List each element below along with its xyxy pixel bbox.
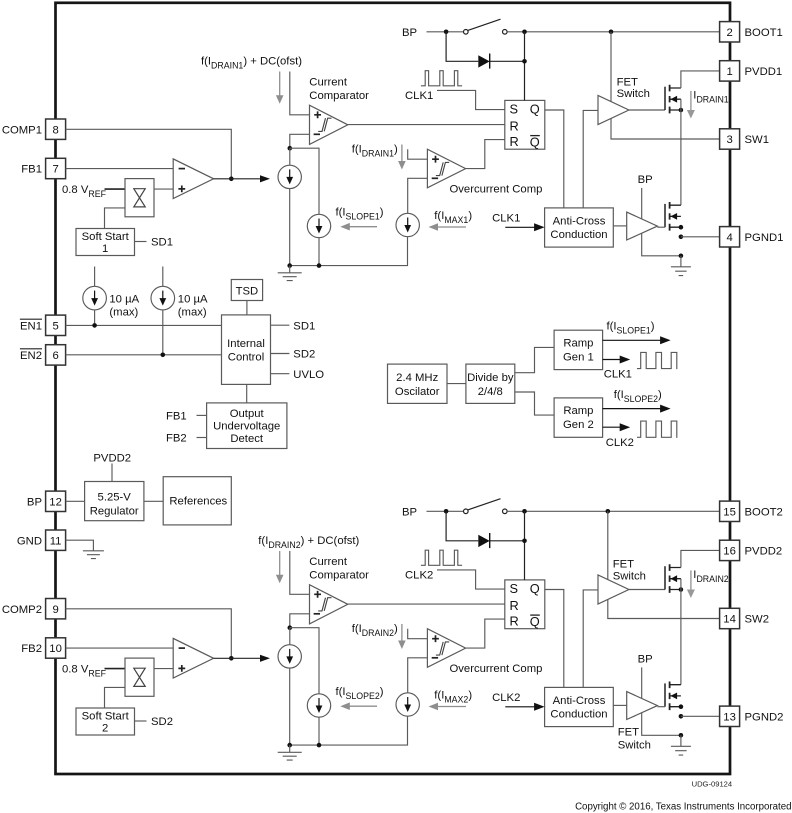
svg-text:2: 2: [726, 27, 732, 39]
wire SD1 stub: [135, 241, 147, 243]
wire PVDD1 to drain: [681, 71, 720, 88]
wire signal to comparator +: [290, 72, 310, 115]
Output Undervoltage Detect box: [207, 403, 287, 449]
svg-text:SW2: SW2: [745, 614, 769, 626]
svg-text:1: 1: [102, 243, 108, 255]
wire COMP2 to node: [66, 609, 232, 659]
wire comparator - input: [290, 614, 310, 628]
wire TSD to control: [246, 301, 248, 315]
svg-text:Control: Control: [228, 352, 264, 364]
node boot diode: [522, 509, 527, 514]
wire anticross to low driver: [613, 704, 626, 706]
svg-text:Copyright © 2016, Texas Instru: Copyright © 2016, Texas Instruments Inco…: [575, 802, 791, 813]
svg-text:BOOT2: BOOT2: [745, 506, 783, 518]
svg-text:S: S: [510, 101, 519, 116]
svg-text:Current: Current: [309, 76, 348, 88]
wire low driver to gate: [657, 226, 665, 228]
arrow slope2 out: [603, 408, 661, 410]
pin 7 FB1: [46, 158, 66, 178]
node EN1 source: [92, 323, 97, 328]
svg-text:Comparator: Comparator: [309, 90, 369, 102]
wire BP to switch: [427, 31, 464, 33]
pin 6 EN2: [46, 345, 66, 365]
wire diode branch: [446, 511, 524, 580]
wire comparator out to latch R1: [348, 124, 505, 126]
node low source: [679, 225, 684, 230]
pin 15 BOOT2: [720, 501, 740, 521]
grey arrow oc drain: [401, 624, 403, 641]
grey arrow oc drain: [401, 145, 403, 162]
svg-text:3: 3: [726, 134, 732, 146]
node low source: [679, 704, 684, 709]
svg-text:Gen 1: Gen 1: [563, 352, 594, 364]
SR latch 1: [505, 100, 545, 149]
wire oc - input: [408, 178, 428, 213]
node EA1 output: [229, 177, 234, 182]
wire to PGND1: [681, 236, 720, 238]
svg-text:UVLO: UVLO: [293, 369, 324, 381]
svg-text:CLK2: CLK2: [405, 570, 433, 582]
wire source2 to EN2: [162, 310, 164, 355]
wire BP to low driver: [641, 667, 643, 698]
svg-text:Anti-Cross: Anti-Cross: [553, 216, 606, 228]
wire low driver return: [642, 713, 681, 735]
svg-text:S: S: [510, 581, 519, 596]
svg-text:Switch: Switch: [617, 88, 650, 100]
References box: [163, 477, 231, 525]
svg-text:SW1: SW1: [745, 134, 769, 146]
wire SW node vertical: [680, 579, 682, 685]
wire COMP1 to node: [66, 129, 232, 179]
wire EN1: [66, 324, 222, 326]
wire G1 bottom rail: [290, 189, 408, 266]
2.4 MHz Oscilator box: [388, 364, 448, 403]
Soft Start 1 box: [76, 229, 135, 256]
svg-text:Soft Start: Soft Start: [82, 231, 130, 243]
svg-text:16: 16: [723, 546, 736, 558]
wire regulator to references: [144, 500, 163, 502]
current source slope2: [307, 694, 330, 717]
grey arrow slope: [349, 705, 377, 707]
arrow slope1 out: [603, 339, 661, 341]
error amplifier EA1: [173, 159, 213, 199]
5.25-V Regulator box: [85, 482, 144, 521]
svg-text:Q: Q: [530, 134, 540, 149]
svg-text:6: 6: [52, 350, 58, 362]
wire to PGND2: [681, 715, 720, 717]
node EN2 source: [161, 353, 166, 358]
svg-text:SD2: SD2: [293, 349, 315, 361]
svg-text:(max): (max): [109, 307, 138, 319]
svg-text:Soft Start: Soft Start: [82, 711, 130, 723]
wire anticross to low driver: [613, 225, 626, 227]
svg-text:10 µA: 10 µA: [178, 293, 208, 305]
wire PVDD2 to drain: [681, 550, 720, 567]
svg-text:Conduction: Conduction: [550, 229, 607, 241]
svg-text:Undervoltage: Undervoltage: [213, 421, 280, 433]
wire oc - input: [408, 658, 428, 693]
svg-text:10: 10: [49, 643, 62, 655]
svg-text:Conduction: Conduction: [550, 709, 607, 721]
svg-text:2/4/8: 2/4/8: [478, 386, 503, 398]
node rail G: [287, 263, 292, 268]
low-side MOSFET Q2L: [664, 683, 666, 706]
wire BP to switch: [427, 510, 464, 512]
svg-text:BP: BP: [638, 654, 653, 666]
node rail slope: [317, 743, 322, 748]
SR latch 2: [505, 580, 545, 629]
svg-text:CLK1: CLK1: [604, 369, 632, 381]
svg-text:Q: Q: [530, 614, 540, 629]
svg-text:EN1: EN1: [20, 320, 42, 332]
wire comparator out to latch R1: [348, 603, 505, 605]
current comparator U2: [310, 585, 348, 624]
svg-text:References: References: [169, 496, 227, 508]
svg-text:Oscilator: Oscilator: [395, 386, 440, 398]
svg-text:7: 7: [52, 164, 58, 176]
wire FB1 to error amp: [66, 168, 174, 170]
svg-text:CLK1: CLK1: [492, 213, 520, 225]
svg-text:PGND1: PGND1: [745, 232, 784, 244]
svg-text:PGND2: PGND2: [745, 711, 784, 723]
wire slope branch: [290, 148, 319, 214]
overcurrent comparator U1b: [427, 149, 465, 188]
10uA source stub 2: [162, 267, 164, 287]
svg-text:PVDD1: PVDD1: [745, 66, 783, 78]
wire source1 to EN1: [94, 310, 96, 326]
pin 9 COMP2: [46, 599, 66, 619]
svg-text:2.4 MHz: 2.4 MHz: [396, 372, 438, 384]
ground comparator rail: [289, 266, 291, 273]
svg-text:Divide by: Divide by: [467, 372, 514, 384]
ground power stage 1: [680, 256, 682, 267]
svg-text:11: 11: [50, 535, 62, 547]
pin 16 PVDD2: [720, 540, 740, 560]
wire boot to SW1: [611, 32, 720, 139]
grey arrow max: [437, 226, 466, 228]
Ramp Gen 2 box: [554, 398, 603, 437]
Ramp Gen 1 box: [554, 330, 603, 369]
high-side MOSFET Q1H: [664, 87, 666, 110]
softstart clamp box ch2: [125, 658, 154, 696]
FET switch driver high 2: [598, 575, 629, 604]
svg-text:Q: Q: [530, 102, 540, 117]
node rail G: [287, 743, 292, 748]
arrow CLK1 out: [603, 359, 621, 361]
pin 2 BOOT1: [720, 22, 740, 42]
svg-text:BP: BP: [402, 27, 417, 39]
wire oc + input: [408, 149, 428, 159]
svg-text:5: 5: [52, 320, 58, 332]
wire CLK2 to latch S: [437, 570, 505, 589]
wire SD2 stub: [135, 720, 147, 722]
grey arrow max: [437, 706, 466, 708]
FET switch driver low 2: [627, 692, 658, 720]
wire clamp to EA+ input: [154, 668, 173, 670]
svg-text:BP: BP: [402, 507, 417, 519]
current source G1 (error): [278, 165, 301, 188]
Divide by 2/4/8 box: [466, 364, 515, 403]
svg-text:FB2: FB2: [166, 433, 187, 445]
current source max1: [396, 213, 419, 236]
TSD box: [231, 280, 262, 301]
arrow CLK1 into anticross: [505, 226, 535, 228]
FET switch driver high 1: [598, 95, 629, 124]
wire VREF to softstart gate: [105, 668, 126, 670]
wire slope branch: [290, 628, 319, 694]
softstart clamp box ch1: [125, 179, 154, 217]
wire diode branch: [446, 32, 524, 101]
Anti-Cross Conduction box 1: [545, 208, 614, 247]
pin 1 PVDD1: [720, 61, 740, 81]
wire switch to BOOT1: [507, 31, 719, 33]
svg-text:PVDD2: PVDD2: [745, 546, 783, 558]
ground GND pin: [83, 551, 104, 559]
wire G2 bottom rail: [290, 668, 408, 745]
Soft Start 2 box: [76, 708, 135, 735]
node boot sw: [606, 509, 611, 514]
grey arrow I_DRAIN2: [690, 570, 692, 589]
pin 3 SW1: [720, 129, 740, 149]
node boot sw: [609, 30, 614, 35]
svg-text:4: 4: [726, 232, 732, 244]
node boot diode: [522, 30, 527, 35]
pin 10 FB2: [46, 638, 66, 658]
error amplifier EA2: [173, 638, 213, 678]
svg-text:Ramp: Ramp: [563, 405, 593, 417]
svg-text:SD1: SD1: [293, 320, 315, 332]
svg-text:Switch: Switch: [613, 570, 646, 582]
wire node to G1 top: [289, 148, 291, 165]
wire boot to SW2: [608, 511, 720, 618]
ground power stage 2: [680, 735, 682, 746]
current source 10uA #1: [83, 286, 107, 310]
wire SW node vertical: [680, 99, 682, 205]
svg-text:R: R: [510, 119, 519, 134]
CLK2 waveform out: [637, 421, 677, 437]
svg-text:9: 9: [52, 604, 58, 616]
Internal Control box: [222, 315, 271, 385]
svg-text:COMP1: COMP1: [2, 124, 42, 136]
svg-text:EN2: EN2: [20, 350, 42, 362]
svg-text:Regulator: Regulator: [90, 506, 139, 518]
wire control to UV detect: [246, 384, 248, 403]
wire osc to divider: [447, 383, 466, 385]
svg-text:Comparator: Comparator: [309, 570, 369, 582]
pin 14 SW2: [720, 608, 740, 628]
svg-text:SD1: SD1: [151, 237, 173, 249]
CLK1 waveform out: [637, 352, 677, 368]
wire SD2 out: [271, 353, 290, 355]
node EA2 output: [229, 656, 234, 661]
svg-text:BOOT1: BOOT1: [745, 27, 783, 39]
node slope sum: [288, 625, 293, 630]
node diode out: [522, 539, 527, 544]
node SW source: [679, 587, 684, 592]
pin 4 PGND1: [720, 227, 740, 247]
ground comparator rail: [289, 745, 291, 752]
svg-text:Ramp: Ramp: [563, 338, 593, 350]
wire PVDD2 to regulator: [111, 464, 113, 482]
CLK2 pulse waveform: [421, 550, 462, 565]
node PGND tap: [679, 714, 684, 719]
10uA source stub 1: [94, 267, 96, 287]
svg-text:1: 1: [726, 66, 732, 78]
wire GND to ground: [66, 540, 94, 551]
overcurrent comparator U2b: [427, 629, 465, 668]
wire oc + input: [408, 629, 428, 639]
wire low driver return: [642, 233, 681, 255]
svg-text:FET: FET: [617, 77, 638, 89]
svg-text:PVDD2: PVDD2: [93, 452, 131, 464]
svg-text:Overcurrent Comp: Overcurrent Comp: [450, 663, 543, 675]
svg-text:15: 15: [723, 506, 736, 518]
wire anticross to high driver: [583, 110, 598, 207]
wire softstart to clamp: [105, 687, 126, 708]
grey arrow DC offset in: [279, 551, 281, 575]
wire FB2 uv: [197, 437, 207, 439]
node rail slope: [317, 263, 322, 268]
svg-text:BP: BP: [638, 174, 653, 186]
svg-text:Overcurrent Comp: Overcurrent Comp: [450, 183, 543, 195]
wire clamp to EA+ input: [154, 188, 173, 190]
pin 13 PGND2: [720, 706, 740, 726]
svg-text:8: 8: [52, 124, 58, 136]
node BP branch: [444, 30, 449, 35]
wire CLK1 to latch S: [437, 90, 505, 109]
svg-text:12: 12: [49, 496, 62, 508]
svg-text:R: R: [510, 598, 519, 613]
grey arrow I_DRAIN1: [690, 91, 692, 110]
arrow CLK2 into anticross: [505, 706, 535, 708]
wire FB2 to error amp: [66, 647, 174, 649]
svg-text:10 µA: 10 µA: [109, 293, 139, 305]
wire signal to comparator +: [290, 551, 310, 594]
wire driver to gate: [629, 589, 665, 591]
wire divider to ramp1: [515, 347, 554, 372]
svg-text:COMP2: COMP2: [2, 604, 42, 616]
svg-text:UDG-09124: UDG-09124: [692, 780, 733, 789]
svg-text:2: 2: [102, 723, 108, 735]
current source 10uA #2: [151, 286, 175, 310]
svg-text:Anti-Cross: Anti-Cross: [553, 695, 606, 707]
svg-text:14: 14: [723, 614, 736, 626]
wire oc out to latch R2: [466, 140, 505, 169]
svg-text:(max): (max): [178, 307, 207, 319]
svg-text:FB1: FB1: [21, 164, 42, 176]
svg-text:FB1: FB1: [166, 411, 187, 423]
wire VREF to softstart gate: [105, 188, 126, 190]
node driver return: [679, 254, 684, 259]
wire FB1 uv: [197, 414, 207, 416]
svg-text:Switch: Switch: [618, 739, 651, 751]
node BP branch: [444, 509, 449, 514]
arrow CLK2 out: [603, 426, 621, 428]
high-side MOSFET Q2H: [664, 566, 666, 589]
svg-text:BP: BP: [27, 496, 42, 508]
svg-text:GND: GND: [17, 535, 42, 547]
node diode out: [522, 59, 527, 64]
arrow EA1 to VCCS: [214, 178, 260, 180]
boot diode D1: [478, 55, 489, 67]
wire Q to anticross: [545, 590, 564, 688]
node slope sum: [288, 146, 293, 151]
svg-text:SD2: SD2: [151, 716, 173, 728]
wire switch to BOOT2: [507, 510, 719, 512]
wire BP to low driver: [641, 188, 643, 219]
svg-text:FET: FET: [618, 727, 639, 739]
svg-text:CLK1: CLK1: [405, 90, 433, 102]
wire BP to regulator: [66, 500, 85, 502]
wire anticross to high driver: [583, 590, 598, 688]
current source slope1: [307, 214, 330, 237]
svg-text:TSD: TSD: [236, 286, 259, 298]
grey arrow DC offset in: [279, 72, 281, 96]
FET switch driver low 1: [627, 212, 658, 240]
svg-text:CLK2: CLK2: [492, 692, 520, 704]
svg-text:FB2: FB2: [21, 643, 42, 655]
wire low driver to gate: [657, 706, 665, 708]
pin 11 GND: [46, 530, 66, 550]
svg-text:Internal: Internal: [227, 338, 265, 350]
svg-text:R: R: [510, 134, 519, 149]
boot diode D2: [478, 535, 489, 547]
wire SD1 out: [271, 324, 290, 326]
CLK1 pulse waveform: [421, 71, 462, 86]
wire divider to ramp2: [515, 392, 554, 415]
boot switch 2: [464, 509, 469, 514]
svg-text:Gen 2: Gen 2: [563, 419, 594, 431]
svg-text:Current: Current: [309, 556, 348, 568]
node driver return: [679, 733, 684, 738]
pin 12 BP: [46, 491, 66, 511]
pin 5 EN1: [46, 315, 66, 335]
node SW source: [679, 108, 684, 113]
Anti-Cross Conduction box 2: [545, 687, 614, 726]
svg-text:13: 13: [723, 711, 736, 723]
low-side MOSFET Q1L: [664, 204, 666, 227]
node PGND tap: [679, 235, 684, 240]
arrow EA2 to VCCS: [214, 657, 260, 659]
wire oc out to latch R2: [466, 619, 505, 648]
svg-text:R: R: [510, 614, 519, 629]
grey arrow slope: [349, 226, 377, 228]
svg-text:FET: FET: [613, 558, 634, 570]
current comparator U1: [310, 105, 348, 144]
wire Q to anticross: [545, 110, 564, 208]
current source G2 (error): [278, 645, 301, 668]
svg-text:Q: Q: [530, 581, 540, 596]
pin 8 COMP1: [46, 119, 66, 139]
svg-text:Output: Output: [230, 408, 265, 420]
svg-text:CLK2: CLK2: [606, 437, 634, 449]
wire EN2: [66, 354, 222, 356]
wire driver to gate: [629, 109, 665, 111]
wire softstart to clamp: [105, 208, 126, 229]
wire node to G2 top: [289, 628, 291, 645]
wire UVLO out: [271, 373, 290, 375]
wire comparator - input: [290, 134, 310, 148]
current source max2: [396, 693, 419, 716]
svg-text:Detect: Detect: [230, 433, 264, 445]
svg-text:5.25-V: 5.25-V: [98, 492, 132, 504]
boot switch 1: [464, 30, 469, 35]
